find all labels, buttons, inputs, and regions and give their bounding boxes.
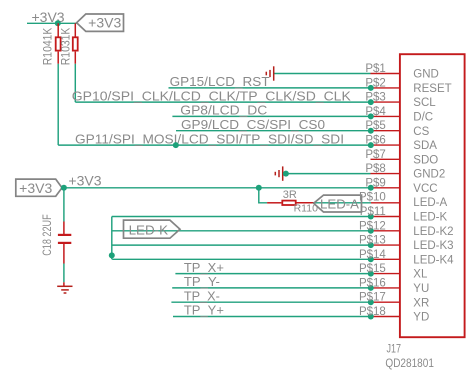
svg-text:GP10/SPI_CLK/LCD_CLK/TP_CLK/SD: GP10/SPI_CLK/LCD_CLK/TP_CLK/SD_CLK [72, 88, 351, 103]
resistor R104 body [56, 37, 61, 50]
wire TP_X- to P$17 [171, 301, 370, 303]
svg-text:P$17: P$17 [359, 292, 386, 304]
svg-text:3R: 3R [283, 189, 297, 201]
svg-text:P$7: P$7 [365, 149, 385, 161]
svg-text:GP11/SPI_MOSI/LCD_SDI/TP_SDI/S: GP11/SPI_MOSI/LCD_SDI/TP_SDI/SD_SDI [75, 131, 344, 146]
svg-text:P$16: P$16 [359, 277, 386, 289]
net flag LED-A (points left) [314, 195, 362, 212]
supply flag +3V3 (bottom left) [16, 179, 62, 196]
svg-text:LED-K: LED-K [413, 212, 447, 224]
connector J17 pin stubs [371, 74, 400, 317]
svg-text:XL: XL [413, 269, 428, 281]
net flag LED-K (points right) [124, 220, 181, 238]
svg-text:+3V3: +3V3 [88, 15, 121, 31]
svg-text:LED-A: LED-A [413, 197, 447, 209]
svg-text:P$9: P$9 [365, 177, 385, 189]
resistor R103 bottom pin [74, 52, 76, 64]
svg-text:P$6: P$6 [365, 135, 385, 147]
resistor R103 top pin [74, 23, 76, 37]
resistor R104 top pin [57, 23, 59, 37]
svg-text:LED-K4: LED-K4 [413, 254, 454, 266]
connector J17 box [400, 54, 465, 337]
connector pin function labels [413, 69, 454, 324]
ground symbol below C18 [57, 286, 72, 293]
svg-text:+3V3: +3V3 [19, 180, 52, 196]
resistor R103 body [73, 37, 78, 50]
junction dot on LED-K vertical [109, 252, 115, 258]
svg-text:P$13: P$13 [359, 235, 386, 247]
svg-text:P$10: P$10 [359, 192, 386, 204]
wire TP_Y+ to P$18 [173, 316, 371, 318]
svg-text:P$15: P$15 [359, 263, 386, 275]
svg-text:P$2: P$2 [365, 77, 385, 89]
wire GP15/LCD_RST to P$2 [169, 87, 371, 89]
junction dots at connector pins [368, 85, 374, 320]
wire GP9 net to P$5 [176, 130, 371, 132]
svg-text:P$14: P$14 [359, 249, 386, 261]
wire GND2 net to P$8 [283, 173, 371, 175]
svg-text:D/C: D/C [413, 112, 433, 124]
capacitor C18 plates [58, 235, 71, 243]
wire LED-K to P$11 [112, 216, 371, 218]
wire from R104 down to GP11 net [57, 64, 59, 145]
resistor R110 right pin [297, 202, 314, 204]
svg-text:VCC: VCC [413, 183, 437, 195]
svg-text:GP8/LCD_DC: GP8/LCD_DC [180, 103, 267, 118]
wire TP_Y- to P$16 [172, 287, 370, 289]
svg-text:TP_Y+: TP_Y+ [184, 303, 224, 318]
wire GP10 net to P$3 [75, 101, 370, 103]
svg-text:XR: XR [413, 297, 429, 309]
svg-text:+3V3: +3V3 [68, 173, 101, 189]
svg-text:SCL: SCL [413, 97, 436, 109]
resistor R104 bottom pin [57, 52, 59, 64]
junction dot at R104 top [55, 20, 61, 26]
svg-text:SDA: SDA [413, 140, 437, 152]
supply flag +3V3 (top) [77, 14, 124, 31]
svg-text:LED-K2: LED-K2 [413, 226, 453, 238]
svg-text:P$18: P$18 [359, 306, 386, 318]
resistor R110 left pin [267, 202, 281, 204]
svg-text:P$3: P$3 [365, 92, 385, 104]
svg-text:TP_X-: TP_X- [184, 288, 220, 303]
svg-text:GND2: GND2 [413, 169, 445, 181]
wire VCC net (+3V3) to P$9 [64, 187, 371, 189]
svg-text:TP_Y-: TP_Y- [184, 274, 220, 289]
svg-text:GP15/LCD_RST: GP15/LCD_RST [170, 74, 270, 89]
svg-text:TP_X+: TP_X+ [184, 260, 224, 275]
capacitor C18 top wire [63, 188, 65, 222]
svg-text:LED-A: LED-A [320, 196, 359, 211]
svg-text:R1041K: R1041K [43, 27, 55, 65]
wire GND net to P$1 [274, 73, 371, 75]
pin name labels P$1-P$18 [359, 63, 386, 318]
ground symbol (rotated) at P$1 [266, 66, 273, 80]
svg-text:C18 22UF: C18 22UF [40, 214, 54, 256]
ground pin stub [63, 282, 65, 286]
svg-text:P$12: P$12 [359, 220, 386, 232]
junction dot on GND2 wire [283, 171, 289, 177]
svg-text:RESET: RESET [413, 83, 451, 95]
wire GP11 net to P$6 [58, 144, 370, 146]
svg-text:LED-K3: LED-K3 [413, 240, 453, 252]
wire LED-K4 to P$14 [112, 258, 370, 260]
svg-text:P$1: P$1 [365, 63, 385, 75]
capacitor C18 top pin [63, 222, 65, 235]
ground symbol (rotated) at P$8 [275, 166, 282, 180]
wire C18 to ground [63, 264, 65, 283]
wire LED-A net to P$10 [314, 202, 371, 204]
wire +3V3 top horizontal [27, 22, 77, 24]
svg-text:P$11: P$11 [360, 206, 386, 218]
svg-text:P$4: P$4 [365, 106, 386, 118]
capacitor C18 bottom pin [63, 244, 65, 264]
wire TP_X+ to P$15 [175, 273, 370, 275]
wire LED-K2 to P$12 [112, 230, 371, 232]
svg-text:P$5: P$5 [365, 120, 385, 132]
junction dot at bottom flag tip [61, 185, 67, 191]
wire branch down to R110 [259, 188, 267, 203]
svg-text:YD: YD [413, 312, 429, 324]
junction dot on GP11 wire [173, 142, 179, 148]
wire from R103 down to GP10 net [74, 64, 76, 102]
svg-text:QD281801: QD281801 [385, 358, 434, 370]
svg-text:GP9/LCD_CS/SPI_CS0: GP9/LCD_CS/SPI_CS0 [181, 117, 325, 132]
junction dot at R110 branch [256, 185, 262, 191]
resistor R110 body [282, 201, 295, 205]
svg-text:LED-K: LED-K [129, 222, 169, 237]
svg-text:P$8: P$8 [365, 163, 385, 175]
svg-text:R1031K: R1031K [61, 27, 73, 65]
svg-text:CS: CS [413, 126, 429, 138]
svg-text:SDO: SDO [413, 154, 438, 166]
svg-text:YU: YU [413, 283, 429, 295]
wire LED-K vertical bus [111, 217, 113, 260]
svg-text:J17: J17 [387, 344, 402, 356]
wire GP8/LCD_DC to P$4 [172, 115, 370, 117]
wire LED-K3 to P$13 [112, 244, 371, 246]
svg-text:GND: GND [413, 69, 439, 81]
